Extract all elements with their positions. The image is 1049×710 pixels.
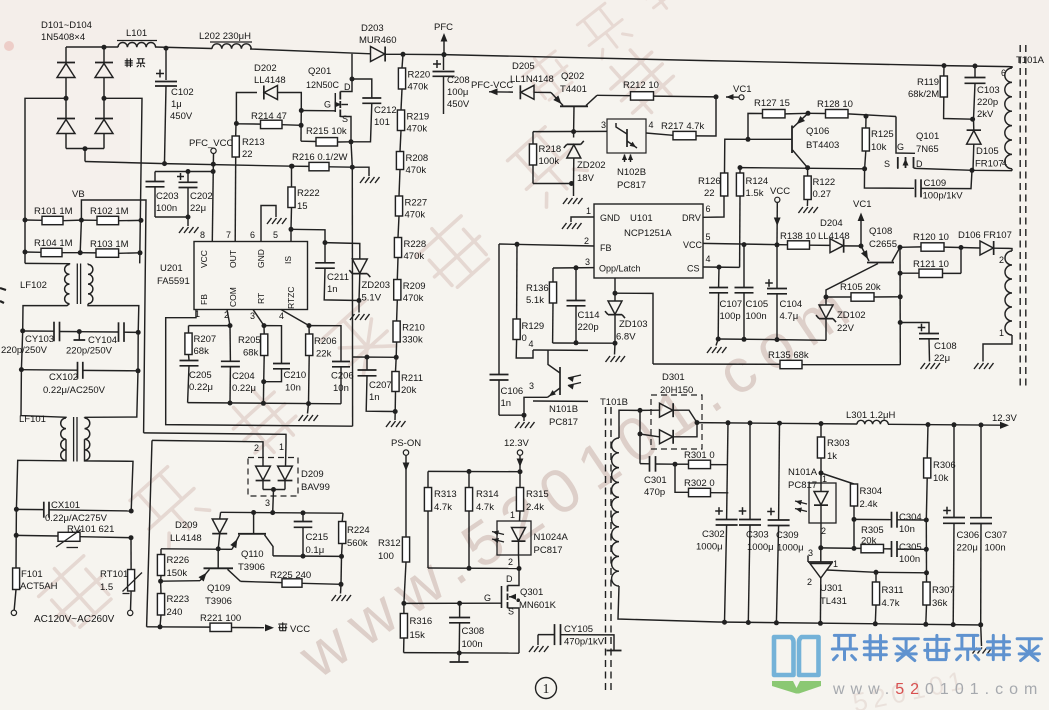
resistor R105 xyxy=(824,282,901,301)
svg-text:1k: 1k xyxy=(827,451,837,462)
svg-text:220p/250V: 220p/250V xyxy=(1,345,48,356)
svg-text:10n: 10n xyxy=(333,383,349,394)
capacitor CY105 xyxy=(538,624,622,651)
svg-text:R101 1M: R101 1M xyxy=(34,206,73,217)
svg-text:R215 10k: R215 10k xyxy=(306,126,347,137)
svg-text:C104: C104 xyxy=(780,299,803,310)
node Q202 base xyxy=(533,129,607,134)
svg-text:36k: 36k xyxy=(932,598,948,609)
svg-text:R135 68k: R135 68k xyxy=(768,350,809,361)
terminal AC left xyxy=(11,610,16,615)
svg-text:470k: 470k xyxy=(405,210,426,221)
capacitor C106 and FB drop xyxy=(490,244,524,415)
resistor R205 xyxy=(238,326,268,385)
resistor R120 xyxy=(900,232,961,251)
svg-text:470p/1kV: 470p/1kV xyxy=(564,637,605,648)
node R210 bottom xyxy=(394,342,399,360)
resistor R213 xyxy=(232,124,265,242)
ground under U201 network xyxy=(299,415,319,421)
watermark top right xyxy=(518,0,689,104)
resistor R315 xyxy=(516,472,548,521)
resistor R135 xyxy=(653,350,900,369)
resistor R126 xyxy=(698,139,748,199)
wire R218 ZD202 bottoms xyxy=(533,181,574,196)
svg-text:D105: D105 xyxy=(976,146,999,157)
shunt regulator U301 TL431 xyxy=(807,548,876,623)
svg-text:RT101: RT101 xyxy=(100,569,128,580)
resistor R220 xyxy=(398,54,430,92)
svg-text:4.7μ: 4.7μ xyxy=(780,311,799,322)
svg-text:C204: C204 xyxy=(232,371,255,382)
svg-text:FA5591: FA5591 xyxy=(157,276,190,287)
resistor R103 xyxy=(80,239,140,257)
capacitor C109 xyxy=(864,168,974,202)
resistor R210 xyxy=(393,300,425,346)
svg-text:R313: R313 xyxy=(434,489,457,500)
svg-text:0: 0 xyxy=(522,333,527,344)
svg-text:10k: 10k xyxy=(933,473,949,484)
diode D209 LL4148 xyxy=(170,512,227,549)
svg-text:R208: R208 xyxy=(406,153,429,164)
svg-text:ZD102: ZD102 xyxy=(837,310,866,321)
svg-text:R213: R213 xyxy=(242,137,265,148)
svg-text:R218: R218 xyxy=(539,144,562,155)
ground under C107 xyxy=(707,347,727,353)
wire top rail left xyxy=(66,47,371,54)
svg-text:15: 15 xyxy=(297,201,308,212)
svg-text:R104 1M: R104 1M xyxy=(34,238,73,249)
svg-text:2.4k: 2.4k xyxy=(526,502,544,513)
terminal VC1 xyxy=(726,84,751,100)
svg-text:1000μ: 1000μ xyxy=(747,542,774,553)
resistor R228 xyxy=(394,216,426,262)
resistor R301 xyxy=(675,450,728,469)
svg-text:C103: C103 xyxy=(977,85,1000,96)
svg-text:C102: C102 xyxy=(171,87,194,98)
resistor R212 xyxy=(597,80,716,100)
svg-text:7: 7 xyxy=(226,230,231,240)
svg-text:R314: R314 xyxy=(476,489,499,500)
svg-text:220p: 220p xyxy=(578,322,599,333)
scan artifact marks xyxy=(0,288,6,303)
resistor R121 xyxy=(900,259,961,278)
diode D202 xyxy=(236,63,301,124)
zener ZD203 xyxy=(325,243,390,313)
resistor R223 xyxy=(157,581,189,627)
node VC1 junction xyxy=(714,94,719,99)
resistor R125 xyxy=(862,116,894,169)
resistor R222 xyxy=(288,164,320,230)
svg-text:D205: D205 xyxy=(512,61,535,72)
svg-text:MUR460: MUR460 xyxy=(359,35,397,46)
svg-text:C210: C210 xyxy=(284,370,307,381)
svg-text:450V: 450V xyxy=(447,99,470,110)
wire U101 pin1 to ground xyxy=(571,217,594,222)
svg-text:U301: U301 xyxy=(820,583,843,594)
svg-text:0.1μ: 0.1μ xyxy=(306,545,325,556)
resistor R208 xyxy=(396,131,428,177)
ground under T101A pin1 xyxy=(974,363,994,369)
zener ZD202 xyxy=(564,132,606,184)
svg-text:LF101: LF101 xyxy=(19,414,46,425)
capacitor C306 xyxy=(943,425,979,625)
wire R216 to ground xyxy=(352,167,369,176)
svg-text:22k: 22k xyxy=(316,349,332,360)
capacitor C104 xyxy=(765,245,802,340)
svg-text:220p: 220p xyxy=(977,97,998,108)
svg-text:Q101: Q101 xyxy=(916,131,939,142)
capacitor CX102 xyxy=(19,362,141,396)
svg-text:3: 3 xyxy=(585,257,590,267)
svg-text:R124: R124 xyxy=(746,176,769,187)
wire U201 bottom rail xyxy=(188,401,341,414)
svg-text:1: 1 xyxy=(279,442,284,452)
svg-text:GND: GND xyxy=(600,213,621,223)
svg-text:LL4148: LL4148 xyxy=(254,75,286,86)
svg-text:12.3V: 12.3V xyxy=(504,438,529,449)
svg-text:1: 1 xyxy=(543,681,550,696)
wire C107 C105 C104 ground rail xyxy=(716,337,780,346)
svg-text:C306: C306 xyxy=(957,530,980,541)
svg-text:PFC: PFC xyxy=(434,22,453,33)
svg-text:2kV: 2kV xyxy=(977,109,994,120)
wire VB sense line xyxy=(72,189,146,433)
svg-text:R316: R316 xyxy=(410,616,433,627)
transformer T101A primary xyxy=(1001,55,1045,171)
node bridge AC right xyxy=(102,96,107,101)
diode D106 xyxy=(958,230,1012,255)
svg-text:R216 0.1/2W: R216 0.1/2W xyxy=(292,152,347,163)
svg-text:R305: R305 xyxy=(861,525,884,536)
svg-text:VCC: VCC xyxy=(199,250,209,268)
resistor R316 xyxy=(400,603,432,652)
svg-text:R228: R228 xyxy=(404,239,427,250)
capacitor C309 xyxy=(767,423,803,623)
svg-text:AC120V~AC260V: AC120V~AC260V xyxy=(34,614,115,625)
capacitor C303 xyxy=(739,423,774,623)
node bridge AC left xyxy=(64,96,69,101)
page number circle xyxy=(536,678,557,699)
svg-text:FB: FB xyxy=(199,294,209,305)
ground under C108 xyxy=(921,363,941,369)
svg-text:Q202: Q202 xyxy=(561,71,584,82)
svg-text:R222: R222 xyxy=(297,188,320,199)
svg-text:FB: FB xyxy=(600,243,612,253)
capacitor C211 xyxy=(315,243,359,301)
svg-text:C105: C105 xyxy=(746,299,769,310)
svg-text:450V: 450V xyxy=(170,111,193,122)
svg-text:C303: C303 xyxy=(746,530,769,541)
svg-text:OUT: OUT xyxy=(228,250,238,268)
wire AC left leg xyxy=(15,509,17,568)
svg-text:100p/1kV: 100p/1kV xyxy=(923,191,964,202)
svg-text:R223: R223 xyxy=(167,594,190,605)
svg-text:D301: D301 xyxy=(662,372,685,383)
svg-text:C309: C309 xyxy=(776,530,799,541)
wire R210 junction to C207 xyxy=(352,355,396,360)
resistor R227 xyxy=(395,170,427,221)
svg-text:www.520101.com: www.520101.com xyxy=(832,681,1043,698)
node divider right xyxy=(138,218,144,255)
svg-text:2: 2 xyxy=(254,443,259,453)
svg-text:L202 230μH: L202 230μH xyxy=(199,31,251,42)
svg-text:10k: 10k xyxy=(871,142,887,153)
ground U201 pin6 xyxy=(267,218,287,224)
svg-text:D: D xyxy=(344,82,351,92)
svg-text:0.22μ: 0.22μ xyxy=(232,383,256,394)
wire standby node rail xyxy=(221,510,343,515)
svg-text:R217 4.7k: R217 4.7k xyxy=(661,121,705,132)
resistor R209 xyxy=(394,258,426,305)
resistor R218 xyxy=(529,132,561,184)
node C207 R211 ground xyxy=(393,409,398,420)
svg-text:FR107: FR107 xyxy=(975,159,1004,170)
svg-text:R136: R136 xyxy=(526,283,549,294)
ground under R211 xyxy=(386,421,406,427)
svg-text:R302 0: R302 0 xyxy=(684,478,715,489)
capacitor C202 xyxy=(177,172,213,218)
diode D105 xyxy=(967,119,1007,170)
wire Q301 source rail xyxy=(404,651,519,656)
wire line A VB to BAV99 pin1 xyxy=(144,433,286,443)
dual diode D301 xyxy=(638,372,703,464)
svg-text:CY104: CY104 xyxy=(88,335,117,346)
terminal PFC arrow xyxy=(434,22,453,55)
svg-text:TL431: TL431 xyxy=(820,596,847,607)
svg-text:PFC-VCC: PFC-VCC xyxy=(471,80,513,91)
ground under ZD202 xyxy=(563,198,583,204)
svg-text:C108: C108 xyxy=(934,341,957,352)
svg-text:R312: R312 xyxy=(378,538,401,549)
node LL4148 cathode xyxy=(161,546,232,551)
svg-text:R210: R210 xyxy=(402,323,425,334)
svg-text:R205: R205 xyxy=(238,335,261,346)
svg-text:C208: C208 xyxy=(447,75,470,86)
capacitor C102 xyxy=(155,46,194,162)
svg-text:C203: C203 xyxy=(156,191,179,202)
svg-text:D209: D209 xyxy=(301,469,324,480)
svg-text:DRV: DRV xyxy=(682,213,701,223)
svg-text:R224: R224 xyxy=(347,525,370,536)
optocoupler N101B xyxy=(524,339,588,428)
svg-text:470k: 470k xyxy=(408,82,429,93)
svg-text:BAV99: BAV99 xyxy=(301,482,330,493)
transformer T101A core xyxy=(1020,45,1026,390)
svg-text:1000μ: 1000μ xyxy=(777,543,804,554)
svg-text:PC817: PC817 xyxy=(534,545,563,556)
wire U101 pin6 DRV to R126 xyxy=(703,196,724,217)
svg-text:G: G xyxy=(484,593,491,603)
svg-text:ZD202: ZD202 xyxy=(577,160,606,171)
diode D205 xyxy=(510,61,554,99)
diode D204 xyxy=(818,218,861,253)
svg-text:2: 2 xyxy=(584,236,589,246)
svg-text:R212 10: R212 10 xyxy=(623,80,659,91)
svg-text:R126: R126 xyxy=(698,176,721,187)
resistor R104 xyxy=(23,238,81,257)
svg-text:T101B: T101B xyxy=(600,397,628,408)
svg-text:C305: C305 xyxy=(899,542,922,553)
svg-text:R220: R220 xyxy=(408,70,431,81)
svg-text:Q106: Q106 xyxy=(806,126,829,137)
svg-text:1.5k: 1.5k xyxy=(746,188,764,199)
svg-text:N101B: N101B xyxy=(549,404,578,415)
svg-text:101: 101 xyxy=(374,117,390,128)
resistor R217 xyxy=(646,97,716,140)
capacitor C108 xyxy=(900,323,957,365)
svg-text:5.1k: 5.1k xyxy=(526,295,544,306)
resistor R129 xyxy=(513,244,544,358)
ground U101 pin1 xyxy=(562,223,582,229)
svg-text:R306: R306 xyxy=(933,460,956,471)
svg-text:4: 4 xyxy=(279,311,284,321)
svg-text:3: 3 xyxy=(265,498,270,508)
svg-text:L101: L101 xyxy=(126,28,147,39)
svg-text:G: G xyxy=(324,100,331,110)
wire ground rail to ZD102 xyxy=(777,339,826,342)
capacitor C304 xyxy=(854,512,926,535)
watermark url diagonal xyxy=(286,267,870,692)
svg-text:1n: 1n xyxy=(327,284,338,295)
svg-text:D202: D202 xyxy=(254,63,277,74)
svg-text:T3906: T3906 xyxy=(205,596,232,607)
svg-text:470k: 470k xyxy=(407,124,428,135)
svg-text:LL4148: LL4148 xyxy=(170,533,202,544)
svg-text:330k: 330k xyxy=(402,335,423,346)
wire R221 rail xyxy=(147,624,210,629)
svg-text:R102 1M: R102 1M xyxy=(90,206,129,217)
svg-text:IS: IS xyxy=(283,256,293,264)
svg-text:22μ: 22μ xyxy=(190,203,206,214)
capacitor C203 xyxy=(146,169,214,217)
svg-text:R122: R122 xyxy=(813,177,836,188)
svg-text:1μ: 1μ xyxy=(171,99,182,110)
choke LF102 xyxy=(20,263,139,332)
svg-text:S: S xyxy=(342,114,348,124)
svg-text:D203: D203 xyxy=(361,23,384,34)
svg-text:R315: R315 xyxy=(526,489,549,500)
svg-text:PC817: PC817 xyxy=(788,480,817,491)
svg-text:C215: C215 xyxy=(306,532,329,543)
zener ZD103 xyxy=(605,278,648,355)
svg-text:COM: COM xyxy=(228,287,238,307)
svg-text:5.1V: 5.1V xyxy=(362,293,382,304)
watermark chinese diagonal xyxy=(32,41,683,636)
resistor R303 xyxy=(817,424,849,476)
svg-text:C114: C114 xyxy=(578,310,600,321)
resistor R302 xyxy=(675,464,728,496)
svg-text:R211: R211 xyxy=(401,373,423,384)
svg-text:C308: C308 xyxy=(462,626,485,637)
capacitor C206 xyxy=(309,326,354,404)
svg-text:CX102: CX102 xyxy=(49,372,78,383)
resistor R206 xyxy=(306,326,337,404)
svg-text:1.5: 1.5 xyxy=(100,582,113,593)
terminal PFC_VCC xyxy=(189,138,233,242)
resistor R211 xyxy=(392,357,423,411)
svg-text:6: 6 xyxy=(706,204,711,214)
node R120 D106 xyxy=(959,245,964,273)
ground near R216 xyxy=(360,177,380,183)
wire gate rail xyxy=(401,601,501,606)
svg-text:4.7k: 4.7k xyxy=(476,502,494,513)
capacitor C105 xyxy=(735,245,769,340)
svg-text:100n: 100n xyxy=(156,203,177,214)
svg-text:CY105: CY105 xyxy=(564,624,593,635)
svg-text:R121 10: R121 10 xyxy=(913,259,949,270)
wire bridge AC-N to right column xyxy=(104,98,142,263)
svg-text:C307: C307 xyxy=(985,530,1008,541)
transistor Q106 xyxy=(746,113,840,167)
wire TL431 ref divider rail xyxy=(874,570,930,576)
svg-text:4: 4 xyxy=(706,254,711,264)
fuse F101 xyxy=(13,568,58,610)
svg-text:N1024A: N1024A xyxy=(534,532,569,543)
svg-text:C202: C202 xyxy=(190,191,213,202)
svg-text:6.8V: 6.8V xyxy=(616,332,636,343)
node R301 R302 left xyxy=(673,462,678,467)
wire U201 pin6 ground jog xyxy=(261,206,276,242)
terminal AC right xyxy=(128,610,133,615)
svg-text:C301: C301 xyxy=(644,475,667,486)
wire right column AC-N xyxy=(85,332,139,417)
text D101~D104 label xyxy=(41,20,92,43)
svg-text:R129: R129 xyxy=(522,321,545,332)
ic U201 FA5591 xyxy=(157,230,308,321)
svg-text:C107: C107 xyxy=(720,299,743,310)
resistor R304 xyxy=(821,473,882,551)
node Q201 gate xyxy=(299,108,336,125)
resistor R128 xyxy=(806,99,897,119)
svg-text:L301 1.2μH: L301 1.2μH xyxy=(846,410,895,421)
resistor R122 xyxy=(804,168,835,206)
svg-text:100n: 100n xyxy=(746,311,767,322)
svg-text:R219: R219 xyxy=(407,112,430,123)
svg-text:470p: 470p xyxy=(644,487,665,498)
terminal to VCC arrow xyxy=(265,623,310,635)
svg-text:C2655: C2655 xyxy=(869,239,897,250)
svg-text:470k: 470k xyxy=(406,165,427,176)
svg-text:3: 3 xyxy=(808,548,813,558)
resistor R119 xyxy=(908,63,973,119)
wire bridge bottom xyxy=(66,146,104,161)
svg-text:N102B: N102B xyxy=(617,167,646,178)
svg-text:1n: 1n xyxy=(369,392,380,403)
transistor Q101 mosfet xyxy=(884,117,1012,171)
capacitor C308 xyxy=(449,603,484,653)
svg-text:PFC_VCC: PFC_VCC xyxy=(189,138,233,149)
svg-text:Opp/Latch: Opp/Latch xyxy=(599,264,641,274)
svg-text:G: G xyxy=(897,142,904,152)
svg-text:Q301: Q301 xyxy=(520,587,543,598)
wire Q201 source to rail xyxy=(351,142,352,167)
svg-text:0.22μ/AC250V: 0.22μ/AC250V xyxy=(43,385,106,396)
varistor RV101 xyxy=(14,524,134,548)
svg-text:R105 20k: R105 20k xyxy=(840,282,881,293)
node PFC rail after D203 xyxy=(401,52,447,57)
wire U201 pin3 RT xyxy=(253,310,267,329)
inductor L101 xyxy=(117,28,157,47)
resistor R124 xyxy=(736,165,768,267)
svg-text:R209: R209 xyxy=(403,281,426,292)
svg-text:MN601K: MN601K xyxy=(519,600,557,611)
svg-text:100μ: 100μ xyxy=(447,87,468,98)
svg-text:100n: 100n xyxy=(985,543,1006,554)
svg-text:560k: 560k xyxy=(347,538,368,549)
svg-text:C205: C205 xyxy=(189,370,212,381)
capacitor C212 xyxy=(351,79,397,142)
ground under R122 xyxy=(798,207,818,213)
